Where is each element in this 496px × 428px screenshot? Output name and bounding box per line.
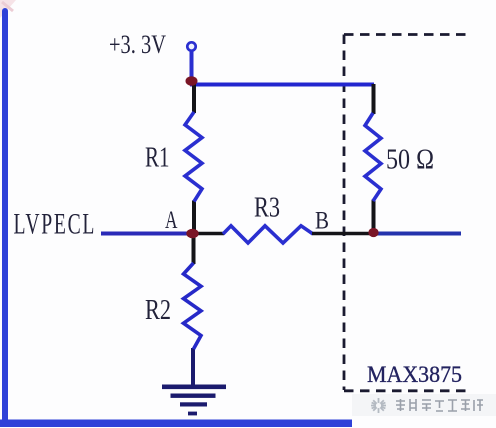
svg-text:R1: R1 xyxy=(145,142,170,174)
svg-text:R3: R3 xyxy=(254,192,280,224)
svg-text:A: A xyxy=(165,207,178,234)
svg-text:50 Ω: 50 Ω xyxy=(386,144,434,176)
svg-text:LVPECL: LVPECL xyxy=(14,207,97,240)
svg-text:MAX3875: MAX3875 xyxy=(367,362,462,387)
svg-text:B: B xyxy=(315,208,329,235)
svg-text:R2: R2 xyxy=(145,294,171,326)
svg-text:+3. 3V: +3. 3V xyxy=(109,30,166,59)
